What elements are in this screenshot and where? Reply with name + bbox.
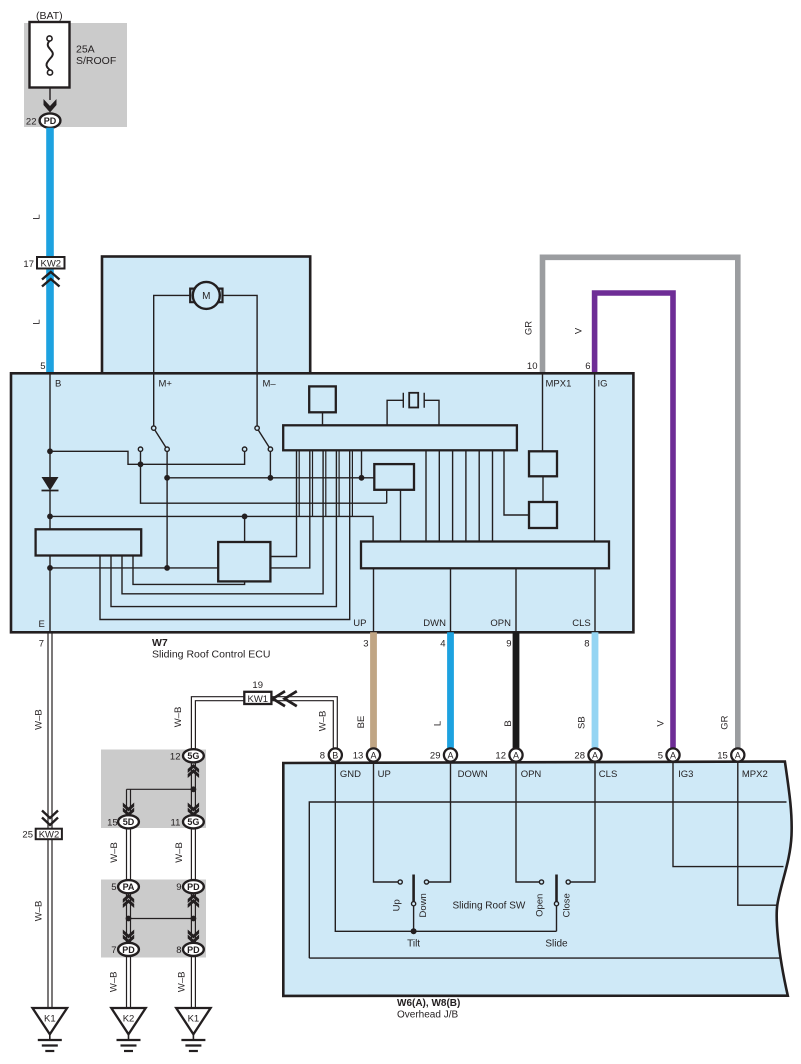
junction block shading 1 — [101, 750, 206, 829]
ECU W7 box — [11, 373, 633, 632]
svg-text:5: 5 — [111, 882, 116, 893]
svg-text:Overhead J/B: Overhead J/B — [397, 1010, 458, 1021]
svg-text:8: 8 — [176, 945, 181, 956]
svg-text:DOWN: DOWN — [458, 769, 488, 780]
svg-text:Down: Down — [418, 893, 429, 917]
wire B internal — [49, 373, 51, 477]
pin 7 — [39, 639, 44, 650]
svg-text:5: 5 — [658, 751, 663, 762]
wire E bus left — [50, 567, 218, 569]
wire cpu wrap 1 — [122, 451, 323, 594]
wire motor M+ lead — [154, 295, 190, 426]
overhead J/B box W6 W8 — [283, 762, 791, 996]
mpx block upper — [529, 451, 557, 476]
svg-text:15: 15 — [717, 751, 728, 762]
svg-text:KW2: KW2 — [39, 830, 60, 841]
svg-text:E: E — [39, 619, 45, 630]
wire CLS internal — [594, 568, 596, 632]
connector 19 KW1 — [244, 680, 296, 706]
wire B to switch contacts — [50, 451, 245, 464]
svg-text:15: 15 — [107, 817, 118, 828]
pin 10 — [527, 361, 538, 372]
label V bottom — [656, 720, 667, 727]
label B — [503, 720, 514, 726]
svg-text:IG3: IG3 — [678, 769, 693, 780]
connector 8 PD — [176, 943, 204, 956]
label Down — [418, 893, 429, 917]
wire M+ left contact to driver — [141, 451, 387, 503]
ground K1 right — [176, 1008, 210, 1051]
svg-text:MPX1: MPX1 — [546, 379, 572, 390]
svg-text:Sliding Roof Control ECU: Sliding Roof Control ECU — [152, 649, 270, 661]
output bar — [361, 542, 609, 569]
connector 8 B — [320, 748, 342, 761]
svg-text:12: 12 — [495, 751, 506, 762]
connector 5 PA — [111, 880, 139, 893]
svg-text:L: L — [32, 319, 43, 324]
relay switch M+ — [138, 426, 169, 452]
wire fuse to connector — [49, 88, 51, 101]
svg-text:25A: 25A — [76, 44, 95, 56]
label W-B — [173, 707, 184, 728]
jb inner bus top — [309, 802, 786, 958]
wire B (black) OPN — [513, 632, 520, 748]
wire CLS to contact — [570, 762, 595, 882]
label W-B — [109, 972, 120, 993]
wire GR (gray) MPX1 loop — [543, 257, 738, 748]
svg-text:B: B — [332, 750, 338, 760]
pin 3 — [363, 639, 368, 650]
wire UP internal — [373, 568, 375, 632]
svg-text:M+: M+ — [159, 379, 173, 390]
crystal X1 — [387, 393, 439, 426]
wire armature bus to control box — [167, 477, 374, 479]
fuse 25A S/ROOF — [30, 22, 117, 88]
contact close — [566, 880, 570, 884]
label W-B — [34, 901, 45, 922]
pin label DWN — [423, 618, 446, 629]
label L — [32, 319, 43, 324]
arrow down into PD 8 — [188, 930, 199, 944]
wire W-B from E to ground K1 — [48, 632, 52, 1008]
node tilt common — [411, 928, 417, 934]
arrow up into 5G — [188, 764, 199, 778]
wire DOWN to contact — [429, 762, 451, 882]
wire M+ armature — [166, 451, 168, 568]
wire PD to PD lower right — [191, 893, 195, 943]
relay driver box — [36, 529, 142, 555]
svg-text:W–B: W–B — [174, 842, 185, 863]
svg-text:V: V — [573, 327, 584, 334]
svg-text:19: 19 — [252, 680, 263, 691]
wire DWN internal — [450, 568, 452, 632]
lower control box — [218, 542, 270, 581]
svg-text:DWN: DWN — [423, 618, 446, 629]
wire cpu to out bar 5 — [478, 451, 480, 542]
connector 29 A — [430, 748, 457, 761]
svg-text:L: L — [32, 214, 43, 219]
wire UP to contact — [374, 762, 399, 882]
label UP — [378, 769, 391, 780]
contact open — [539, 880, 543, 884]
svg-text:A: A — [513, 750, 519, 760]
wire L (blue) DOWN — [447, 632, 454, 748]
svg-text:13: 13 — [353, 751, 364, 762]
wire lower box to driver wrap — [133, 556, 245, 585]
svg-text:KW2: KW2 — [41, 258, 62, 269]
wire lower box to cpu b — [270, 451, 309, 568]
svg-text:W–B: W–B — [177, 972, 188, 993]
node diode junction — [47, 514, 53, 520]
wire branch to 5D — [127, 789, 194, 815]
wire cpu to out bar 2 — [438, 451, 440, 542]
pin label M+ — [159, 379, 173, 390]
node switch feed junction — [138, 461, 144, 467]
label Slide — [545, 939, 568, 950]
wire W-B from GND connector to KW1 to 5G — [191, 697, 337, 749]
svg-text:8: 8 — [584, 639, 589, 650]
node cross left — [126, 916, 132, 922]
svg-text:GND: GND — [340, 769, 361, 780]
wire OPN internal — [515, 568, 517, 632]
svg-text:5G: 5G — [187, 817, 199, 827]
wire control box pin b — [400, 490, 402, 542]
wire cpu to out bar 1 — [425, 451, 427, 542]
svg-text:L: L — [432, 721, 443, 726]
connector 28 A — [574, 748, 601, 761]
label L — [432, 721, 443, 726]
wire cross link — [129, 918, 194, 920]
pin label UP — [353, 618, 366, 629]
svg-text:22: 22 — [26, 116, 37, 127]
connector 12 A — [495, 748, 522, 761]
arrow down into PD 7 — [123, 930, 134, 944]
svg-text:W–B: W–B — [109, 972, 120, 993]
wire 5G to PD — [191, 828, 195, 880]
svg-text:Close: Close — [562, 893, 573, 917]
pin label MPX1 — [546, 379, 572, 390]
svg-text:(BAT): (BAT) — [36, 10, 63, 22]
svg-text:12: 12 — [170, 751, 181, 762]
svg-text:OPN: OPN — [490, 618, 511, 629]
label Close — [562, 893, 573, 917]
wire E internal — [49, 556, 51, 633]
label IG3 — [678, 769, 693, 780]
svg-text:A: A — [735, 750, 741, 760]
wire osc box lead — [322, 412, 324, 425]
svg-text:CLS: CLS — [572, 618, 590, 629]
connector 5 A — [658, 748, 680, 761]
svg-text:BE: BE — [356, 716, 367, 729]
svg-text:KW1: KW1 — [248, 694, 269, 705]
ground K2 — [111, 1008, 145, 1051]
label MPX2 — [742, 769, 768, 780]
wire BE (beige) UP — [370, 632, 377, 748]
svg-text:MPX2: MPX2 — [742, 769, 768, 780]
svg-text:17: 17 — [23, 259, 34, 270]
motor M — [190, 282, 222, 309]
wire GND to switch commons — [335, 762, 556, 931]
svg-text:M: M — [202, 291, 210, 302]
wire mpx blocks link — [542, 476, 544, 502]
label BE — [356, 716, 367, 729]
wire IG internal — [594, 375, 596, 542]
node cross right — [191, 916, 197, 922]
svg-text:B: B — [503, 720, 514, 726]
slide switch arm — [554, 875, 558, 932]
wire SB (sky blue) CLS — [592, 632, 599, 748]
pin label CLS — [572, 618, 590, 629]
contact up — [398, 880, 402, 884]
connector 25 KW2 — [22, 811, 61, 841]
svg-text:CLS: CLS — [599, 769, 617, 780]
label GR top — [524, 321, 535, 335]
label GR bottom — [719, 715, 730, 729]
svg-text:9: 9 — [506, 639, 511, 650]
pin 5 — [40, 361, 45, 372]
svg-text:29: 29 — [430, 751, 441, 762]
svg-text:UP: UP — [353, 618, 366, 629]
svg-text:Up: Up — [392, 899, 403, 911]
mpx block lower — [529, 502, 557, 528]
label Open — [534, 894, 545, 917]
label Up — [392, 899, 403, 911]
label DOWN — [458, 769, 488, 780]
wire MPX2 bus — [738, 762, 778, 905]
node E junction — [47, 565, 53, 571]
arrow down into 5G lower — [188, 803, 199, 817]
label W-B — [34, 709, 45, 730]
tilt switch arm — [412, 875, 416, 932]
arrow up into PA — [123, 894, 134, 908]
svg-text:8: 8 — [320, 751, 325, 762]
svg-text:A: A — [592, 750, 598, 760]
svg-text:5D: 5D — [123, 817, 135, 827]
connector 7 PD — [111, 943, 139, 956]
arrow into connector 22 — [44, 99, 57, 113]
svg-text:A: A — [447, 750, 453, 760]
svg-text:M–: M– — [263, 379, 277, 390]
connector 12 5G — [170, 749, 204, 762]
pin label M- — [263, 379, 277, 390]
svg-text:K1: K1 — [188, 1014, 200, 1025]
wire B bus to output bar — [50, 516, 373, 541]
pin label IG — [598, 379, 608, 390]
connector 15 5D — [107, 815, 139, 828]
node armature tap — [164, 475, 170, 481]
svg-text:A: A — [670, 750, 676, 760]
connector 22 PD — [26, 113, 60, 127]
label V top — [573, 327, 584, 334]
wire cpu to out bar 6 — [492, 451, 494, 542]
pin 4 — [440, 639, 445, 650]
svg-text:Tilt: Tilt — [407, 939, 420, 950]
label Sliding Roof SW — [453, 901, 526, 912]
svg-text:5: 5 — [40, 361, 45, 372]
arrow down into 5D — [123, 803, 134, 817]
svg-text:V: V — [656, 720, 667, 727]
svg-text:Sliding Roof SW: Sliding Roof SW — [453, 901, 526, 912]
svg-text:UP: UP — [378, 769, 391, 780]
fuse block shading (BAT) — [24, 23, 127, 127]
connector 9 PD — [176, 880, 204, 893]
svg-text:PD: PD — [122, 945, 135, 955]
connector 13 A — [353, 748, 380, 761]
svg-text:9: 9 — [176, 882, 181, 893]
pin label B — [55, 379, 61, 390]
label W-B — [174, 842, 185, 863]
wire cpu to out bar 4 — [465, 451, 467, 542]
label W-B — [109, 842, 120, 863]
wire PA to PD lower left — [127, 893, 131, 943]
svg-text:PD: PD — [187, 945, 200, 955]
wire PD8 to ground K1 — [191, 956, 195, 1008]
pin label OPN — [490, 618, 511, 629]
node branch — [191, 786, 197, 792]
jb inner bus bottom — [309, 957, 780, 959]
svg-text:W6(A), W8(B): W6(A), W8(B) — [397, 998, 460, 1009]
node M- armature junction — [268, 475, 274, 481]
svg-text:K1: K1 — [44, 1014, 56, 1025]
svg-text:GR: GR — [719, 715, 730, 729]
node cpu tap — [359, 475, 365, 481]
wire control box pin a — [386, 490, 388, 503]
label Tilt — [407, 939, 420, 950]
label CLS — [599, 769, 617, 780]
wire OPN to contact — [516, 762, 539, 882]
wire cpu pin to tap — [361, 451, 363, 478]
svg-text:W–B: W–B — [109, 842, 120, 863]
svg-text:W–B: W–B — [34, 709, 45, 730]
pin 9 — [506, 639, 511, 650]
node B junction — [47, 448, 53, 454]
svg-text:7: 7 — [39, 639, 44, 650]
svg-text:4: 4 — [440, 639, 445, 650]
wire lower box feed — [244, 516, 246, 542]
wire cpu wrap 3 — [100, 451, 350, 620]
svg-text:28: 28 — [574, 751, 585, 762]
label W-B — [177, 972, 188, 993]
wire IG3 bus — [673, 762, 784, 867]
svg-text:W7: W7 — [152, 637, 168, 649]
diode D1 — [42, 477, 59, 491]
wire MPX1 internal — [542, 375, 544, 452]
wire cpu wrap 2 — [111, 451, 336, 607]
label OPN — [521, 769, 542, 780]
control box mid — [374, 464, 414, 490]
node lower box feed — [242, 514, 248, 520]
svg-text:S/ROOF: S/ROOF — [76, 55, 116, 67]
connector 15 A — [717, 748, 744, 761]
cpu bar — [283, 425, 517, 450]
label (BAT) — [36, 10, 63, 22]
pin 6 — [585, 361, 590, 372]
wire 5D to PA — [127, 828, 131, 880]
label W6(A) W8(B) — [397, 998, 460, 1021]
label L — [32, 214, 43, 219]
svg-text:W–B: W–B — [173, 707, 184, 728]
svg-text:IG: IG — [598, 379, 608, 390]
pin 8 — [584, 639, 589, 650]
wire lower box to cpu a — [270, 451, 296, 557]
svg-text:W–B: W–B — [34, 901, 45, 922]
svg-text:PD: PD — [187, 882, 200, 892]
label W-B — [318, 711, 329, 732]
svg-text:B: B — [55, 379, 61, 390]
wire motor M- lead — [223, 295, 257, 426]
svg-text:A: A — [370, 750, 376, 760]
connector 17 KW2 — [23, 257, 64, 287]
svg-text:5G: 5G — [187, 751, 199, 761]
arrow up into PD — [188, 894, 199, 908]
svg-text:Slide: Slide — [545, 939, 568, 950]
svg-text:SB: SB — [576, 716, 587, 729]
contact down — [424, 880, 428, 884]
wire PD7 to ground K2 — [127, 956, 131, 1008]
svg-text:PD: PD — [44, 116, 57, 126]
svg-text:GR: GR — [524, 321, 535, 335]
ground K1 left — [33, 1008, 68, 1051]
svg-text:7: 7 — [111, 945, 116, 956]
svg-text:6: 6 — [585, 361, 590, 372]
wire diode to relay box — [49, 491, 51, 530]
svg-text:3: 3 — [363, 639, 368, 650]
label SB — [576, 716, 587, 729]
svg-text:PA: PA — [123, 882, 135, 892]
wire 5G to branch — [191, 762, 195, 815]
wire L (blue) fuse to ECU pin 5 — [46, 128, 54, 373]
wire cpu to out bar 3 — [452, 451, 454, 542]
label GND — [340, 769, 361, 780]
pin label E — [39, 619, 45, 630]
motor housing box — [102, 257, 310, 374]
wire M- armature — [269, 451, 271, 477]
svg-text:K2: K2 — [123, 1014, 135, 1025]
svg-text:W–B: W–B — [318, 711, 329, 732]
label W7 — [152, 637, 270, 661]
wire cpu pin siblings — [299, 451, 352, 517]
junction block shading 2 — [101, 880, 206, 958]
osc box — [309, 386, 336, 412]
wire V (purple) IG loop — [595, 293, 673, 748]
relay switch M- — [242, 426, 272, 452]
svg-text:11: 11 — [171, 817, 181, 828]
connector 11 5G — [171, 815, 204, 828]
svg-text:25: 25 — [22, 830, 33, 841]
node armature to E bus — [164, 565, 170, 571]
wire cpu to mpx block — [504, 451, 529, 515]
svg-text:OPN: OPN — [521, 769, 542, 780]
svg-text:10: 10 — [527, 361, 538, 372]
svg-text:Open: Open — [534, 894, 545, 917]
